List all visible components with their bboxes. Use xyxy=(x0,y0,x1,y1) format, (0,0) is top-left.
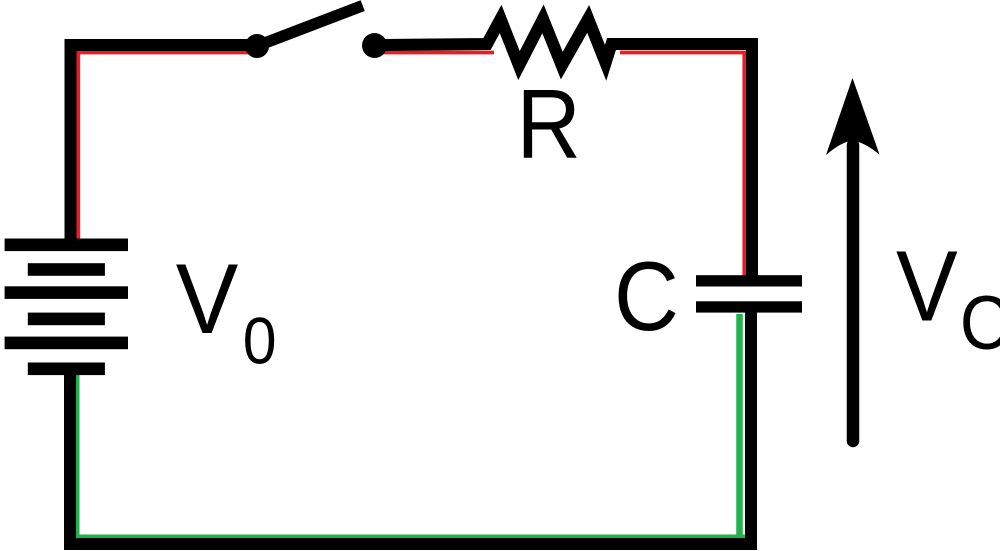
wire green highlight (below battery to bottom-left corner) xyxy=(78,372,749,537)
battery short plate 2 xyxy=(28,313,105,326)
wire: dot2 to resistor, resistor R zigzag, to top-right corner, down to capacitor top xyxy=(375,19,753,281)
svg-text:0: 0 xyxy=(243,304,277,378)
voltage arrow VC head xyxy=(826,78,880,155)
switch contact dot 1 xyxy=(245,34,269,58)
svg-text:V: V xyxy=(896,231,958,342)
svg-text:C: C xyxy=(614,241,679,350)
wire red highlight left/top (battery to switch dot1) xyxy=(78,53,251,241)
capacitor C bottom plate xyxy=(696,301,802,312)
wire red highlight (switch dot2 to resistor) xyxy=(382,51,494,55)
capacitor C top plate xyxy=(696,275,802,286)
voltage arrow VC shaft xyxy=(847,145,860,441)
wire red highlight (resistor to capacitor top) xyxy=(620,53,744,278)
svg-text:R: R xyxy=(517,68,581,178)
battery long plate 3 xyxy=(5,337,128,350)
switch lever (open) xyxy=(257,6,363,46)
battery short plate 3 xyxy=(28,363,105,376)
battery long plate 2 xyxy=(5,286,128,299)
svg-text:C: C xyxy=(960,281,1000,365)
switch contact dot 2 xyxy=(362,33,387,58)
battery short plate 1 xyxy=(28,263,105,276)
battery V0 long plate 1 xyxy=(5,239,128,252)
wire: battery bottom to bottom-left corner, bottom wire, right vertical up to capacitor xyxy=(70,307,751,544)
wire: top-left corner and left vertical xyxy=(71,45,254,244)
svg-text:V: V xyxy=(176,245,239,355)
wire green highlight (capacitor bottom down right side) xyxy=(736,314,743,537)
